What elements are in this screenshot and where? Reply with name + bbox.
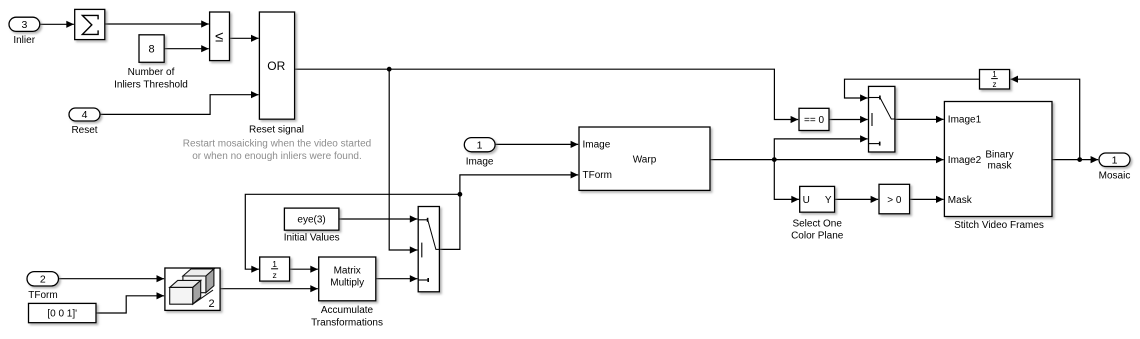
- constant [0 0 1]': [29, 303, 97, 322]
- svg-text:mask: mask: [988, 160, 1013, 171]
- wire junction up to Delay2: [1010, 79, 1079, 159]
- svg-text:U: U: [803, 195, 810, 206]
- wire Delay1 to MatrixMultiply: [290, 268, 318, 270]
- junction Warp output: [772, 157, 777, 162]
- svg-text:Y: Y: [825, 195, 832, 206]
- svg-text:Image: Image: [466, 157, 494, 168]
- svg-text:or when no enough inliers were: or when no enough inliers were found.: [192, 151, 362, 162]
- svg-text:Reset: Reset: [71, 125, 97, 136]
- junction TForm feedback: [458, 192, 463, 197]
- wire junction up to Switch1 input3: [774, 139, 867, 160]
- svg-text:Mask: Mask: [948, 195, 973, 206]
- svg-text:Matrix: Matrix: [334, 266, 361, 277]
- svg-text:1: 1: [992, 70, 997, 79]
- wire Stitch to Mosaic: [1052, 159, 1098, 161]
- product Matrix Multiply Accumulate Transformations: [311, 257, 383, 328]
- inport 1 Image: [464, 138, 495, 168]
- wire EQ0 to Switch1 control: [829, 119, 868, 121]
- svg-text:1: 1: [272, 259, 277, 269]
- svg-text:Multiply: Multiply: [330, 278, 364, 289]
- wire MatrixMultiply to Switch2 input3: [376, 278, 418, 280]
- wire Reset to OR: [100, 95, 259, 115]
- svg-text:TForm: TForm: [583, 170, 612, 181]
- wire feedback to Delay1: [245, 194, 460, 269]
- svg-text:Image1: Image1: [948, 115, 982, 126]
- wire OR to EQ0: [295, 69, 799, 119]
- inport 3 Inlier: [9, 17, 40, 46]
- wire TForm inport to Concat: [59, 278, 165, 280]
- wire Sum to LE: [105, 23, 209, 25]
- wire eye3 to Switch2 input1: [339, 218, 418, 220]
- logical operator OR Reset signal: [249, 12, 304, 136]
- wire Switch2 to Warp TForm: [439, 175, 578, 250]
- svg-text:Select One: Select One: [792, 219, 842, 230]
- svg-text:eye(3): eye(3): [297, 214, 325, 225]
- svg-text:Number of: Number of: [128, 67, 175, 78]
- svg-text:1: 1: [1112, 154, 1118, 166]
- junction Stitch output: [1077, 157, 1082, 162]
- inport 4 Reset: [69, 108, 100, 136]
- wire Const8 to LE: [164, 48, 209, 50]
- svg-text:Stitch Video Frames: Stitch Video Frames: [954, 220, 1044, 231]
- select color plane block U Y: [791, 186, 844, 241]
- svg-text:z: z: [993, 80, 997, 89]
- svg-text:> 0: > 0: [887, 195, 902, 206]
- wire Inlier to Sum: [40, 23, 74, 25]
- relational operator LE: [210, 12, 230, 61]
- subsystem Warp: [579, 127, 710, 190]
- svg-text:Binary: Binary: [985, 150, 1013, 161]
- compare block == 0: [799, 108, 829, 130]
- wire junction down to Switch2 control: [389, 69, 417, 250]
- matrix concatenate block: [165, 268, 220, 310]
- svg-text:TForm: TForm: [28, 290, 57, 301]
- svg-text:2: 2: [40, 274, 46, 286]
- subsystem Stitch Video Frames: [944, 102, 1052, 232]
- svg-text:== 0: == 0: [804, 115, 824, 126]
- wire LE to OR: [230, 37, 259, 39]
- outport 1 Mosaic: [1099, 153, 1131, 182]
- wire GT0 to Stitch Mask: [910, 198, 944, 200]
- switch Switch1: [869, 86, 895, 152]
- svg-text:Image2: Image2: [948, 155, 982, 166]
- wire Switch1 to Stitch Image1: [895, 118, 944, 120]
- svg-text:Inlier: Inlier: [13, 35, 35, 46]
- svg-text:Warp: Warp: [633, 154, 657, 165]
- svg-text:Mosaic: Mosaic: [1099, 171, 1131, 182]
- compare block > 0: [879, 184, 910, 214]
- svg-text:3: 3: [21, 19, 27, 31]
- wire junction down to ColorPlane: [774, 160, 799, 200]
- svg-text:OR: OR: [267, 59, 285, 73]
- unit delay Delay1: [260, 257, 290, 281]
- svg-text:Initial Values: Initial Values: [284, 232, 340, 243]
- switch Switch2: [418, 207, 439, 292]
- svg-text:Reset signal: Reset signal: [249, 125, 304, 136]
- svg-text:2: 2: [208, 298, 214, 310]
- wire Const001 to Concat: [96, 296, 164, 313]
- svg-text:Inliers Threshold: Inliers Threshold: [114, 79, 188, 90]
- svg-text:Image: Image: [583, 140, 611, 151]
- constant eye(3) Initial Values: [284, 208, 340, 243]
- junction OR output: [387, 67, 392, 72]
- wire Concat to MatrixMultiply: [220, 288, 318, 290]
- svg-text:Accumulate: Accumulate: [321, 305, 374, 316]
- wire ColorPlane to GT0: [835, 198, 879, 200]
- wire Warp to Stitch Image2: [710, 159, 944, 161]
- sum block Sigma: [75, 9, 105, 39]
- annotation Restart mosaicking: [183, 139, 371, 163]
- svg-text:≤: ≤: [215, 29, 223, 46]
- svg-text:1: 1: [477, 140, 483, 152]
- svg-text:z: z: [272, 270, 276, 280]
- unit delay Delay2 flipped: [980, 70, 1010, 90]
- svg-text:Transformations: Transformations: [311, 317, 383, 328]
- wire Delay2 to Switch1 input1: [845, 79, 980, 98]
- svg-text:Restart mosaicking when the vi: Restart mosaicking when the video starte…: [183, 139, 371, 150]
- svg-text:[0 0 1]': [0 0 1]': [47, 309, 77, 320]
- wire Image inport to Warp: [495, 143, 578, 145]
- svg-text:4: 4: [82, 109, 88, 121]
- svg-text:8: 8: [149, 44, 155, 56]
- constant 8 Number of Inliers Threshold: [114, 35, 188, 91]
- svg-text:Color Plane: Color Plane: [791, 231, 844, 242]
- inport 2 TForm: [27, 272, 59, 301]
